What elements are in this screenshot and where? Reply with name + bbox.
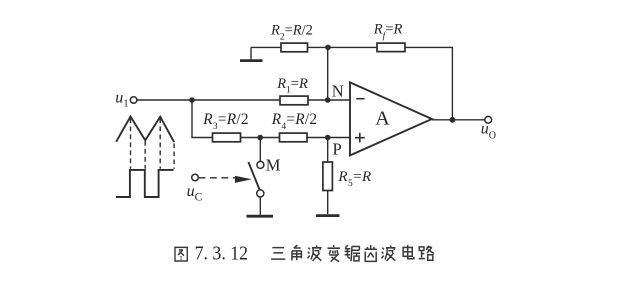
caption glyph 波 (2nd) [381,245,395,261]
terminal uO [485,116,492,123]
op-amp minus sign [356,98,364,100]
caption glyph 波 (1st) [307,245,321,261]
terminal uC [192,174,199,181]
wire: junction down to node N [327,47,329,100]
svg-text:R5=R: R5=R [337,169,371,189]
caption glyph 变 [327,245,339,262]
wire: switch to ground [259,197,261,215]
wire: R2 to Rf [308,46,378,48]
node N dot [325,97,331,103]
svg-text:M: M [266,156,281,175]
svg-text:A: A [375,108,390,130]
wire: R3 to R4 [241,137,280,139]
wire: junction A down to lower row [192,100,213,138]
input triangle waveform [116,117,174,143]
wire: R5 to ground [327,191,329,215]
resistor R5 [323,162,333,191]
wire: R4 to op-amp noninverting input [307,137,351,139]
dashed control line from uC [199,177,237,179]
svg-text:R4=R/2: R4=R/2 [271,111,318,132]
svg-text:uC: uC [187,183,203,204]
svg-text:P: P [333,140,342,159]
switch lower contact circle [257,190,264,197]
wire: ground to R2 [251,46,281,48]
caption glyph 齿 [365,245,377,261]
svg-text:uO: uO [481,121,496,142]
svg-text:7. 3. 12: 7. 3. 12 [195,242,249,264]
wire: R1 to op-amp inverting input [308,99,351,101]
wire: Rf right then down to output node [405,47,452,119]
output junction dot (feedback tap) [450,117,456,123]
dashed guide at valley [144,141,146,169]
caption glyph 电 [403,245,414,259]
junction dot A (input split) [189,97,195,103]
resistor R3 [213,133,241,142]
control arrowhead [235,176,252,183]
svg-text:R2=R/2: R2=R/2 [270,23,313,43]
resistor Rf [377,43,405,52]
wire: op-amp output to terminal [432,119,485,121]
caption glyph 图 [175,247,187,261]
ground (top-left, for R2) [240,47,263,60]
svg-text:R1=R: R1=R [276,76,308,96]
junction dot (R2/Rf tap to N) [325,45,331,51]
svg-text:N: N [332,81,344,100]
control square waveform [116,170,174,197]
caption glyph 锯 [345,245,360,261]
resistor R1 [280,96,308,105]
junction dot B (tap to switch M) [257,135,263,141]
caption glyph 路 [419,246,434,261]
op-amp A [350,82,432,155]
svg-text:u1: u1 [115,90,129,110]
terminal M circle [257,161,264,168]
ground (below R5) [316,214,340,217]
svg-text:Rf=R: Rf=R [373,22,403,42]
resistor R4 [280,133,308,142]
switch blade [248,162,259,190]
caption glyph 角 [292,245,301,260]
wire: P down to R5 [327,138,329,163]
wire: u1 to R1 [137,99,280,101]
dashed guide at first peak [130,119,132,169]
dashed guide at second peak [159,119,161,169]
resistor R2 [281,43,308,52]
caption glyph 三 [271,248,285,260]
op-amp plus sign [355,133,365,143]
terminal u1 [130,97,137,104]
dashed guide at right end [173,144,175,169]
wire: junction B down to switch terminal M [259,138,261,162]
svg-text:R3=R/2: R3=R/2 [202,111,249,132]
ground (below switch) [247,215,274,218]
node P dot [325,135,331,141]
